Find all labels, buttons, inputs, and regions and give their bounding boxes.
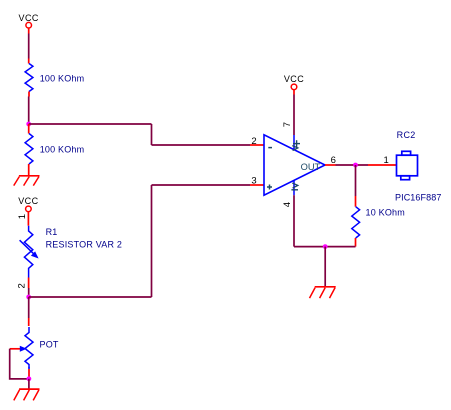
node E junction (pin4/10K/ground) xyxy=(323,244,328,249)
wire bend down to inverting input level xyxy=(151,124,153,145)
wire to op-amp pin 3 xyxy=(152,184,265,186)
wire to op-amp pin 2 xyxy=(152,144,265,146)
power VCC net symbol (at R1) xyxy=(18,196,38,226)
ground (op-amp reference) xyxy=(310,287,336,298)
pin number 2 of R1 (rotated) xyxy=(16,283,27,288)
svg-text:RC2: RC2 xyxy=(397,130,416,140)
wire VCC to op-amp pin 7 xyxy=(293,95,295,136)
power VCC net symbol (op-amp pin 7) xyxy=(284,74,304,95)
svg-text:2: 2 xyxy=(251,136,256,147)
wire node E to ground xyxy=(324,247,326,287)
wire VCC to R top (left column) xyxy=(28,34,30,64)
svg-text:R1: R1 xyxy=(46,227,58,237)
svg-text:2: 2 xyxy=(16,283,27,288)
wire node C to ground xyxy=(28,379,30,389)
op-amp V- pin stub with - marker (pin 4) xyxy=(291,180,298,195)
resistor 100 KOhm (upper) xyxy=(25,64,84,97)
node A junction (divider midpoint) xyxy=(26,122,31,127)
svg-text:OUT: OUT xyxy=(301,162,321,172)
pin number 7 (rotated) xyxy=(282,122,293,127)
node C junction (POT bottom/wiper) xyxy=(27,376,32,381)
wire node A to bend, horizontal xyxy=(29,123,152,125)
op-amp non-inverting input mark + xyxy=(267,185,272,190)
op-amp V+ pin stub with + marker (pin 7) xyxy=(292,135,300,151)
wire bend up to non-inverting input level xyxy=(151,185,153,297)
svg-text:VCC: VCC xyxy=(18,196,38,206)
wire op-amp pin 4 down xyxy=(293,195,295,246)
op-amp output pin 6 xyxy=(325,155,336,166)
op-amp OUT pin label xyxy=(301,162,321,172)
wire output to node D xyxy=(336,164,369,166)
node D junction (output net) xyxy=(353,163,358,168)
svg-text:3: 3 xyxy=(251,175,256,186)
wire R1 bottom pin to node B xyxy=(28,273,30,298)
wire POT wiper loop to bottom terminal xyxy=(10,349,29,379)
svg-text:4: 4 xyxy=(282,202,293,207)
pin number 2 label xyxy=(251,136,256,147)
ground (below lower 100K resistor) xyxy=(14,176,40,186)
wire R1 bottom to node A xyxy=(28,97,30,125)
node B junction (R1 wiper net) xyxy=(26,295,31,300)
wire node D down to 10K resistor xyxy=(355,165,357,207)
svg-text:VCC: VCC xyxy=(284,74,304,84)
wire node D to RC2 terminal pin 1 xyxy=(368,155,397,166)
power VCC net symbol (top left) xyxy=(19,13,39,34)
wire node B to bend, horizontal xyxy=(29,296,152,298)
ground (below POT) xyxy=(14,389,40,400)
svg-text:1: 1 xyxy=(384,155,389,166)
svg-text:VCC: VCC xyxy=(19,13,39,23)
terminal RC2 (PIC16F887 pin) xyxy=(395,130,441,203)
resistor 100 KOhm (lower) xyxy=(25,124,84,176)
variable resistor R1 RESISTOR VAR 2 xyxy=(20,226,123,273)
op-amp U1 triangle xyxy=(264,135,325,195)
wire node B down to POT xyxy=(28,297,30,326)
pin number 3 label xyxy=(251,175,256,186)
svg-text:100 KOhm: 100 KOhm xyxy=(40,144,85,154)
svg-text:RESISTOR VAR 2: RESISTOR VAR 2 xyxy=(46,239,123,249)
svg-text:7: 7 xyxy=(282,122,293,127)
svg-text:10 KOhm: 10 KOhm xyxy=(366,208,405,218)
pin number 1 of R1 (rotated) xyxy=(17,214,28,219)
wire pin 4 to 10K bottom, horizontal xyxy=(294,246,356,248)
potentiometer POT xyxy=(10,327,59,379)
op-amp inverting input mark - xyxy=(268,147,272,149)
svg-text:6: 6 xyxy=(331,155,336,166)
svg-text:100 KOhm: 100 KOhm xyxy=(40,73,85,83)
svg-text:1: 1 xyxy=(17,214,28,219)
svg-text:PIC16F887: PIC16F887 xyxy=(395,192,441,202)
resistor 10 KOhm xyxy=(352,207,405,247)
svg-text:POT: POT xyxy=(40,339,59,349)
pin number 4 (rotated) xyxy=(282,202,293,207)
